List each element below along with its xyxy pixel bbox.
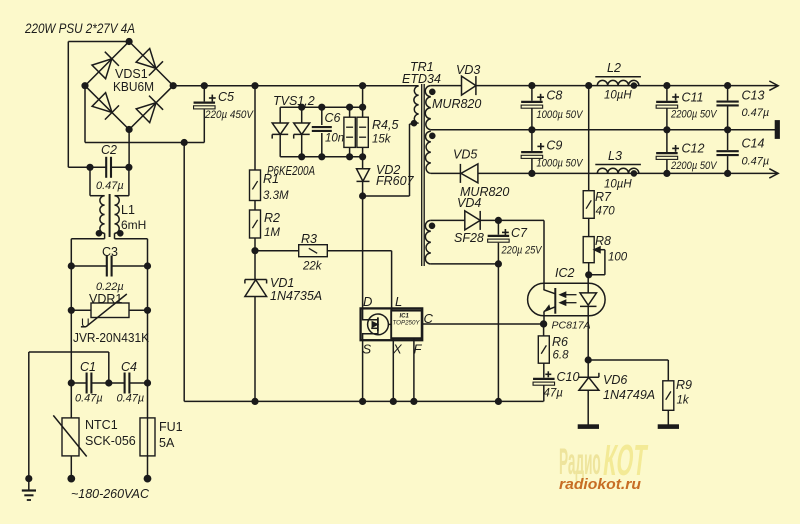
svg-text:C8: C8 <box>546 89 562 103</box>
svg-text:S: S <box>363 342 372 357</box>
svg-text:C5: C5 <box>218 90 234 104</box>
svg-text:1M: 1M <box>264 227 280 239</box>
svg-text:1000µ 50V: 1000µ 50V <box>536 158 583 170</box>
svg-text:1k: 1k <box>677 395 690 407</box>
wire filter right rail <box>115 239 148 418</box>
diode VD4 SF28 <box>454 196 484 245</box>
svg-text:2200µ 50V: 2200µ 50V <box>670 160 718 172</box>
capacitor C6 10n <box>312 104 344 160</box>
svg-text:C12: C12 <box>682 141 705 155</box>
capacitor C3 <box>68 245 150 293</box>
watermark radiokot.ru <box>559 477 641 493</box>
watermark Radio KOT <box>559 437 650 485</box>
svg-text:U: U <box>81 316 90 330</box>
svg-text:470: 470 <box>596 206 616 218</box>
capacitor C1 <box>68 360 112 405</box>
svg-text:C13: C13 <box>742 89 765 103</box>
wire HV- bus <box>184 143 543 402</box>
svg-text:10µH: 10µH <box>604 179 632 191</box>
svg-text:100: 100 <box>608 252 628 264</box>
wire output rail A <box>431 85 778 87</box>
svg-text:L: L <box>395 294 402 309</box>
svg-text:X: X <box>392 342 403 357</box>
svg-text:C2: C2 <box>101 143 117 157</box>
svg-text:VD5: VD5 <box>453 148 477 162</box>
svg-text:VDR1: VDR1 <box>89 292 122 306</box>
wire filter left rail <box>71 239 104 418</box>
resistor R6 6.8 <box>538 324 569 378</box>
svg-text:15k: 15k <box>372 134 392 146</box>
inductor L3 10uH <box>595 149 641 191</box>
TVS diode TVS2 P6KE200A <box>294 104 310 160</box>
optocoupler IC2 PC817A <box>528 266 606 360</box>
wire bias rail <box>431 220 544 290</box>
wire bias return <box>431 264 502 405</box>
capacitor C11 2200u 50V <box>656 83 718 133</box>
wire drain to IC1 D <box>362 196 364 308</box>
svg-text:R8: R8 <box>595 234 611 248</box>
svg-text:P6KE200A: P6KE200A <box>267 164 315 178</box>
transformer secondary winding 1 <box>425 86 435 130</box>
svg-text:~180-260VAC: ~180-260VAC <box>71 487 150 501</box>
svg-text:radiokot.ru: radiokot.ru <box>559 477 641 493</box>
svg-text:VD6: VD6 <box>603 373 627 387</box>
earth ground <box>22 352 109 500</box>
capacitor C7 220u 25V <box>488 217 543 267</box>
svg-text:0.47µ: 0.47µ <box>742 156 770 168</box>
inductor L1 6mH <box>90 167 146 239</box>
capacitor C4 <box>109 360 151 405</box>
svg-text:C4: C4 <box>121 360 137 374</box>
svg-text:C: C <box>424 311 434 326</box>
svg-text:3.3M: 3.3M <box>263 190 289 202</box>
svg-text:TOP250Y: TOP250Y <box>393 320 421 327</box>
varistor VDR1 JVR-20N431K <box>68 292 150 345</box>
zener diode VD1 1N4735A <box>245 251 322 405</box>
svg-text:F: F <box>414 342 423 357</box>
resistor R4 15k <box>344 104 355 160</box>
svg-text:ETD34: ETD34 <box>402 72 441 86</box>
transformer secondary winding 2 <box>426 131 436 173</box>
svg-text:1N4735A: 1N4735A <box>270 289 322 303</box>
svg-text:PC817A: PC817A <box>552 320 591 332</box>
wire output rail B <box>431 172 778 174</box>
capacitor C14 0.47u <box>716 130 769 177</box>
wire output common rail <box>431 129 775 131</box>
capacitor C5 220u 450V <box>194 83 255 143</box>
svg-text:2200µ 50V: 2200µ 50V <box>670 109 718 121</box>
svg-text:JVR-20N431K: JVR-20N431K <box>73 331 150 345</box>
resistor R3 22k <box>252 232 392 273</box>
svg-text:220W PSU 2*27V 4A: 220W PSU 2*27V 4A <box>24 20 135 36</box>
svg-text:R9: R9 <box>676 378 692 392</box>
capacitor C2 <box>87 143 132 192</box>
svg-text:C3: C3 <box>102 245 118 259</box>
svg-text:SF28: SF28 <box>454 231 484 245</box>
svg-text:SCK-056: SCK-056 <box>85 434 136 448</box>
svg-text:0.47µ: 0.47µ <box>96 180 124 192</box>
capacitor C9 1000u 50V <box>521 130 584 177</box>
diode VD2 FR607 <box>357 157 415 199</box>
capacitor C13 0.47u <box>716 83 769 133</box>
diode VD5 MUR820 <box>453 148 509 200</box>
svg-text:C14: C14 <box>742 137 765 151</box>
svg-text:FU1: FU1 <box>159 420 183 434</box>
zener diode VD6 1N4749A <box>578 357 655 429</box>
svg-text:R4,5: R4,5 <box>372 118 398 132</box>
svg-text:R2: R2 <box>264 211 280 225</box>
svg-text:L1: L1 <box>121 203 135 217</box>
svg-text:10µH: 10µH <box>604 90 632 102</box>
transformer TR1 ETD34 core <box>402 60 441 266</box>
svg-text:MUR820: MUR820 <box>432 97 481 111</box>
svg-text:IC2: IC2 <box>555 266 575 280</box>
wire AC input top <box>68 42 129 168</box>
title label <box>24 20 135 36</box>
svg-text:TVS1,2: TVS1,2 <box>273 94 315 108</box>
svg-text:R7: R7 <box>595 190 612 204</box>
svg-text:L2: L2 <box>607 61 621 75</box>
svg-text:C1: C1 <box>80 360 96 374</box>
transformer bias winding <box>425 220 434 264</box>
svg-text:R6: R6 <box>552 335 568 349</box>
svg-text:0.47µ: 0.47µ <box>742 107 770 119</box>
transformer primary winding <box>411 86 418 126</box>
svg-text:Радио: Радио <box>559 441 601 482</box>
bridge rectifier VDS1 KBU6M <box>82 38 176 132</box>
arrow output A <box>769 81 778 90</box>
svg-text:1000µ 50V: 1000µ 50V <box>536 109 583 121</box>
trimmer R8 100 <box>583 234 628 278</box>
resistor R1 3.3M <box>250 83 289 202</box>
svg-text:L3: L3 <box>608 149 622 163</box>
wire TVS clamp bus <box>280 83 366 157</box>
wire bridge AC bottom <box>128 130 130 168</box>
arrow output B <box>769 169 778 178</box>
thermistor NTC1 SCK-056 <box>53 415 135 482</box>
label mains voltage <box>71 487 150 501</box>
svg-text:5A: 5A <box>159 436 175 450</box>
svg-text:KBU6M: KBU6M <box>113 80 154 94</box>
capacitor C8 1000u 50V <box>521 83 584 133</box>
svg-text:0.47µ: 0.47µ <box>117 393 145 405</box>
svg-text:C7: C7 <box>511 226 528 240</box>
svg-text:1N4749A: 1N4749A <box>603 388 655 402</box>
label P6KE200A <box>267 164 315 178</box>
diode VD3 MUR820 <box>432 63 481 111</box>
svg-text:10n: 10n <box>325 133 344 145</box>
svg-text:6mH: 6mH <box>121 218 146 232</box>
capacitor C12 2200u 50V <box>656 130 718 177</box>
svg-text:C9: C9 <box>546 139 562 153</box>
resistor R2 1M <box>250 201 281 251</box>
svg-text:D: D <box>363 294 372 309</box>
svg-text:C10: C10 <box>557 370 580 384</box>
svg-text:22k: 22k <box>302 261 323 273</box>
wire drain node to primary <box>363 124 414 196</box>
svg-text:R3: R3 <box>301 232 317 246</box>
TVS diode TVS1 P6KE200A <box>272 107 288 157</box>
svg-text:47µ: 47µ <box>544 388 564 400</box>
capacitor C10 47u <box>533 370 579 401</box>
wire bridge minus to C5 <box>85 86 204 146</box>
resistor R7 470 <box>583 86 615 237</box>
IC U1 TOP250Y <box>360 251 547 405</box>
svg-text:C6: C6 <box>325 111 341 125</box>
label TVS1,2 <box>273 94 315 108</box>
svg-text:220µ 450V: 220µ 450V <box>204 109 254 121</box>
svg-text:VD1: VD1 <box>270 276 294 290</box>
wire HV+ rail <box>173 85 418 87</box>
svg-text:NTC1: NTC1 <box>85 418 118 432</box>
svg-text:6.8: 6.8 <box>553 350 570 362</box>
inductor L2 10uH <box>586 61 641 102</box>
fuse FU1 5A <box>140 418 183 482</box>
resistor R5 15k <box>357 104 399 160</box>
resistor R9 1k <box>588 360 692 428</box>
output common terminal <box>775 121 779 139</box>
svg-text:0.47µ: 0.47µ <box>75 393 103 405</box>
svg-text:VD3: VD3 <box>456 63 480 77</box>
svg-text:VD4: VD4 <box>457 196 481 210</box>
svg-text:C11: C11 <box>682 91 704 105</box>
svg-text:220µ 25V: 220µ 25V <box>501 245 543 257</box>
svg-text:VDS1: VDS1 <box>115 67 148 81</box>
